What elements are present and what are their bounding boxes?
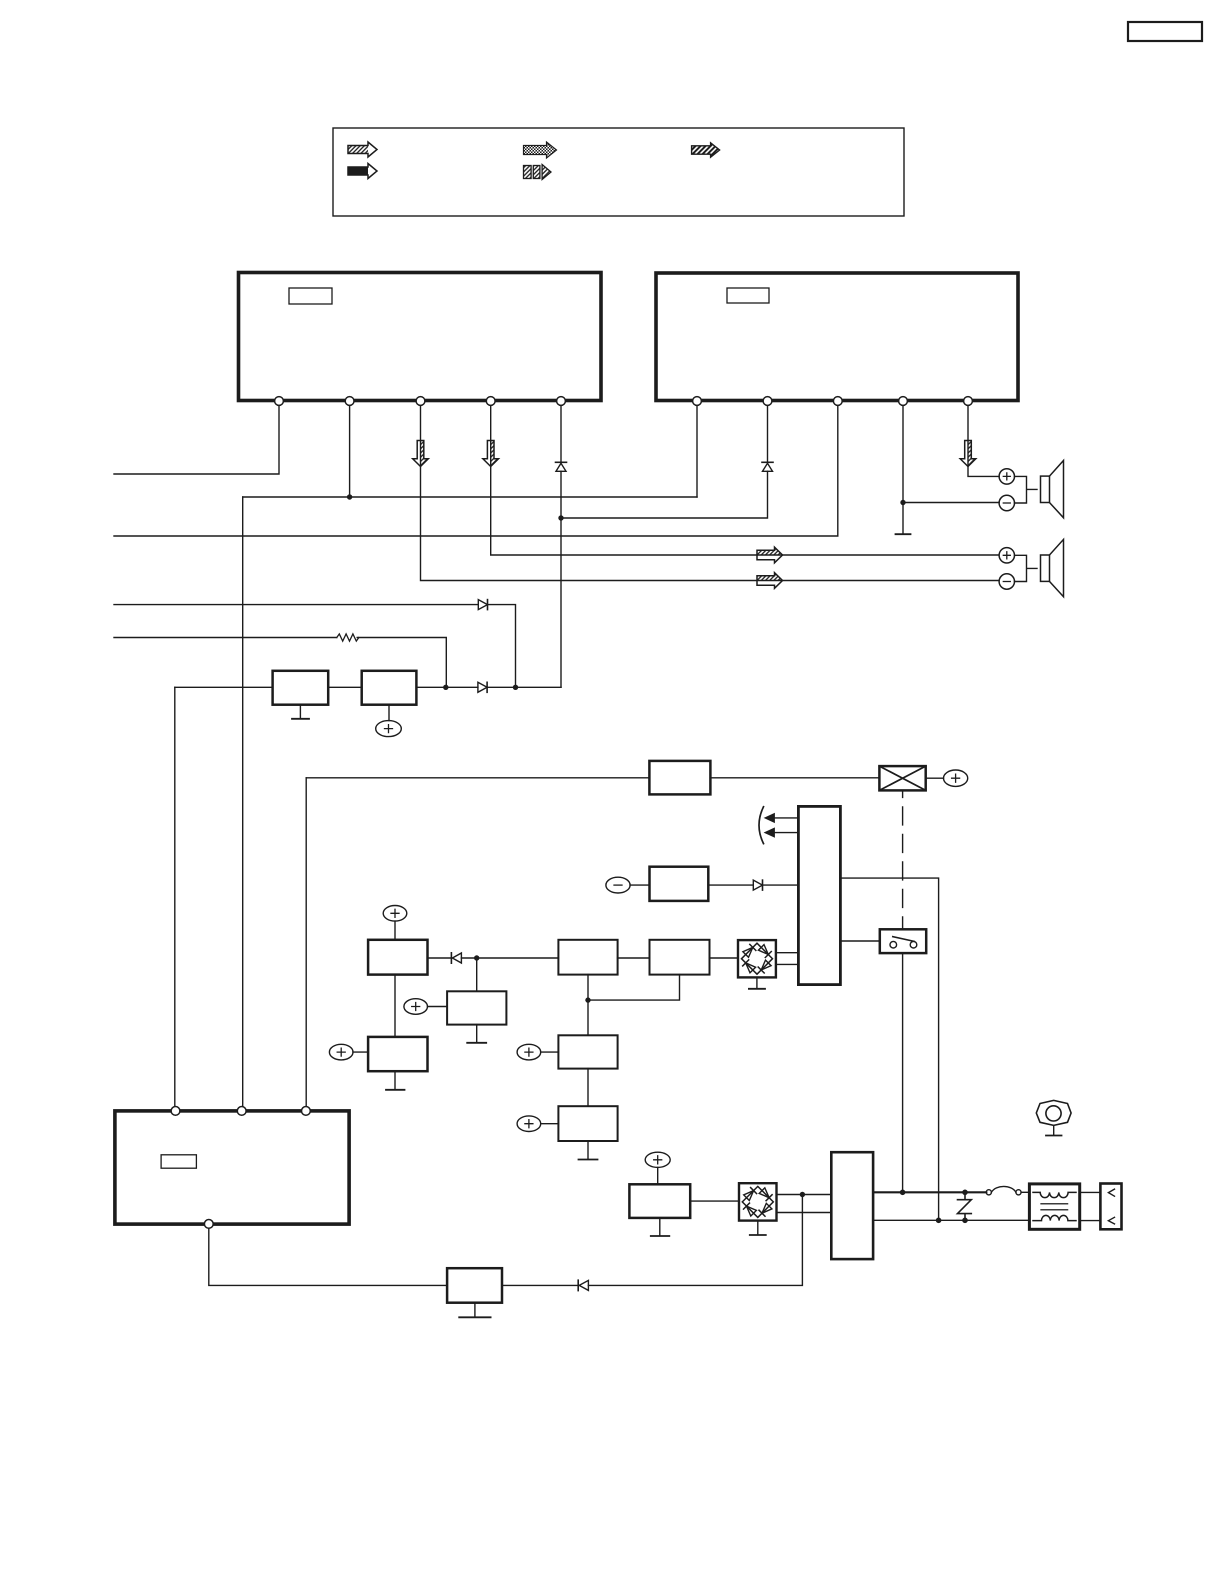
node A junction: [347, 494, 352, 499]
node I junction: [900, 1190, 906, 1196]
legend arrow 5 (striped): [692, 143, 720, 157]
terminal + (block H): [404, 999, 428, 1015]
AC plug P1: [1100, 1184, 1121, 1230]
wire U2 pin4 to ground: [902, 401, 904, 534]
wire terminal to block H: [428, 1006, 448, 1008]
block L: [447, 1268, 502, 1303]
speaker SP2: [1041, 539, 1064, 596]
ground (block I): [386, 1071, 405, 1090]
resistor R1: [337, 634, 359, 641]
wire U2 pin1 up: [696, 401, 698, 497]
wire U1 pin5 down: [560, 401, 562, 687]
block J: [558, 1035, 617, 1068]
supply terminal +B (block B): [376, 705, 402, 737]
U2 pins: [693, 397, 973, 406]
wire block G bottom to node G2: [588, 975, 680, 1001]
wire G to bridge BR1: [710, 957, 739, 959]
block M: [629, 1184, 690, 1218]
node H junction: [800, 1192, 805, 1197]
remote sensor arrows: [765, 814, 799, 838]
ground (BR1): [749, 977, 765, 988]
diode D3 (right): [478, 600, 487, 610]
speaker SP1: [1041, 461, 1064, 518]
legend arrow 4 (segmented hatched): [524, 165, 552, 180]
diode D4 (right): [478, 682, 487, 692]
relay switch S1: [880, 929, 926, 953]
speaker SP2 minus terminal: [999, 574, 1014, 589]
regulator block B: [362, 671, 417, 705]
terminal + (block I): [329, 1044, 353, 1060]
wire D4 to corner: [487, 686, 561, 688]
speaker SP1 bracket wires: [1015, 476, 1038, 503]
ground (block A): [292, 705, 309, 719]
diode D2 (up) on U2 pin2 wire: [762, 462, 773, 471]
wires transformer to AC plug: [1080, 1192, 1101, 1220]
U2 (power amp block right): [656, 273, 1018, 401]
terminal minus (block D): [606, 877, 630, 893]
speaker SP2 plus terminal: [999, 548, 1014, 563]
wires BR2 to power block T2: [777, 1195, 832, 1213]
speaker SP2 bracket wires: [1015, 555, 1038, 581]
wire D7 to rail corner up: [588, 1195, 802, 1286]
U3 label rect: [161, 1155, 196, 1168]
op-amp IC U1 (power amp block left): [239, 273, 602, 401]
ground (block H): [467, 1025, 486, 1043]
ground (block M): [651, 1218, 670, 1236]
wire block M to bridge BR2: [690, 1200, 739, 1202]
node C junction: [900, 500, 905, 505]
ground (block L): [459, 1303, 490, 1318]
IC U3 (bottom-left block): [115, 1111, 349, 1224]
wire D3 to corner down: [488, 605, 516, 688]
block F: [558, 940, 617, 975]
wire motor to terminal: [926, 777, 944, 779]
wire U4 to switch: [840, 940, 879, 942]
wire node F down to block H: [476, 958, 478, 991]
wire to regulator row: [175, 686, 273, 688]
diode D7 (left): [578, 1280, 588, 1290]
wire terminal to block E: [394, 921, 396, 940]
ground (pilot lamp): [1046, 1125, 1062, 1135]
wire E to diode D6: [428, 957, 452, 959]
power block T2: [831, 1152, 873, 1259]
terminal + (block J): [517, 1044, 541, 1060]
signal arrow (hatched, down) on U2 pin5 wire: [960, 441, 976, 467]
diode D5 (right): [753, 880, 762, 890]
wire bus node A horizontal: [243, 496, 697, 498]
wire D5 to U4: [763, 884, 799, 886]
wire node C to speaker1 minus: [903, 502, 999, 504]
wire E down to block I: [394, 975, 396, 1037]
regulator block A: [273, 671, 329, 705]
speaker SP1 plus terminal: [999, 469, 1014, 484]
U3 top pins: [171, 1107, 310, 1116]
wire vertical rail to U3 pin: [305, 778, 307, 1107]
U1 pins: [275, 397, 566, 406]
signal arrow (hatched, down) on pin4 wire: [483, 441, 499, 467]
legend arrow 2 (solid shaft): [348, 164, 377, 179]
remote sensor arc: [759, 807, 764, 844]
ground (block K): [579, 1141, 598, 1160]
wire F to G: [618, 957, 650, 959]
U2 label rect: [727, 288, 769, 303]
signal arrow (hatched, right) on speaker plus line: [757, 547, 783, 563]
wire block F bottom down to block J: [587, 975, 589, 1036]
wire R1 to corner down: [357, 638, 446, 688]
wire A to B: [328, 686, 362, 688]
block D: [650, 867, 709, 901]
wire muting line from left edge: [114, 604, 478, 606]
wire U1 pin1 to left edge: [114, 401, 279, 474]
signal arrow (hatched, down) on pin3 wire: [413, 441, 429, 467]
terminal + (block E): [383, 906, 407, 922]
terminal + (block M): [645, 1152, 670, 1167]
node K junction: [936, 1218, 942, 1224]
wire U3 pin to block L: [209, 1228, 447, 1285]
ground (BR2): [750, 1221, 766, 1235]
wire D6 to block F: [461, 957, 558, 959]
wire U1 pin4 to speaker line: [491, 401, 999, 555]
node L junction: [962, 1218, 968, 1224]
wire long rail to block C: [306, 777, 649, 779]
node J junction: [962, 1190, 968, 1196]
signal arrow (hatched, right) on speaker minus line: [757, 573, 783, 589]
diode D6 (left): [451, 953, 461, 963]
block C: [649, 761, 710, 795]
surge absorber Z1: [958, 1192, 972, 1220]
wire D to diode D5: [708, 884, 753, 886]
wire vertical to U3 pin: [174, 687, 176, 1106]
bridge rectifier BR1: [738, 940, 776, 977]
wire minus terminal to block D: [630, 884, 649, 886]
legend arrow 3 (checkered): [524, 142, 557, 158]
AC live wire (bold): [873, 1191, 986, 1193]
wire U4 to power rail corner: [840, 878, 938, 1220]
legend box: [333, 128, 904, 216]
block G: [650, 940, 710, 975]
U1 label rect: [289, 288, 332, 304]
wire terminal to block K: [541, 1123, 559, 1125]
wire terminal to block J: [541, 1051, 559, 1053]
wire terminal to block I: [353, 1051, 368, 1053]
node F junction: [474, 955, 479, 960]
bridge rectifier BR2: [739, 1183, 777, 1220]
node E junction: [513, 685, 518, 690]
dashed mechanical link motor to switch: [902, 790, 904, 929]
wire block L to diode D7: [502, 1284, 578, 1286]
wire switch down: [902, 953, 904, 1192]
wire J down to block K: [587, 1069, 589, 1107]
node B junction: [558, 515, 563, 520]
wire U2 pin3 to left edge: [114, 401, 838, 536]
U3 bottom pin: [204, 1220, 213, 1229]
block K: [558, 1106, 617, 1141]
terminal + (block K): [517, 1116, 541, 1132]
ground (U2 pin4): [896, 533, 911, 535]
page number box (top right): [1128, 22, 1202, 41]
block I: [368, 1037, 427, 1071]
block H: [447, 991, 506, 1024]
node D junction: [443, 685, 448, 690]
supply terminal + (motor): [944, 770, 968, 786]
wire B to diode row: [416, 686, 478, 688]
wires BR1 to U4: [776, 953, 799, 965]
wire terminal to block M: [657, 1167, 659, 1184]
speaker SP1 minus terminal: [999, 495, 1014, 510]
wire C to motor: [710, 777, 879, 779]
diode D1 (up) on pin5 wire: [556, 462, 567, 471]
wire U2 pin5 to speaker1 plus: [968, 401, 999, 476]
power transformer PT1: [1029, 1184, 1079, 1229]
legend arrow 1 (hatched shaft): [348, 142, 377, 157]
wire node B to U2 pin2: [561, 401, 768, 518]
AC neutral wire: [873, 1219, 1029, 1221]
wire feedback line from left edge: [114, 637, 337, 639]
fuse F1: [986, 1186, 1029, 1194]
system control IC U4 (tall box): [798, 806, 840, 984]
node G2 junction: [585, 997, 590, 1002]
wire vertical to U3: [242, 497, 244, 1107]
wire U1 pin2 down: [349, 401, 351, 497]
pilot lamp symbol: [1036, 1100, 1071, 1125]
wire U1 pin3 to speaker line: [421, 401, 999, 581]
motor M1 (crossed box): [879, 766, 925, 790]
power supply block E: [368, 940, 427, 975]
